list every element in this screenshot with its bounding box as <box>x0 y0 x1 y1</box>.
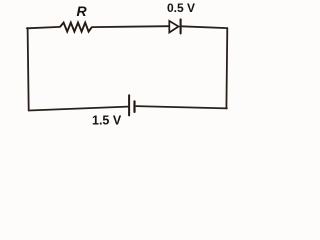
battery B1 long plate (positive) <box>128 95 130 115</box>
wire: top-right segment from diode to corner <box>182 26 228 28</box>
wire: top-left segment from corner to resistor <box>27 27 60 28</box>
resistor R (zigzag) <box>60 23 92 32</box>
diode D1 cathode bar <box>180 19 182 33</box>
svg-text:1.5 V: 1.5 V <box>92 114 122 128</box>
wire: bottom-left segment from battery to corner <box>29 107 128 111</box>
battery B1 short plate (negative) <box>133 101 135 112</box>
svg-text:R: R <box>76 3 87 19</box>
wire: right vertical side <box>225 28 228 108</box>
wire: top segment between resistor and diode <box>92 25 169 28</box>
diode D1 triangle (anode) <box>169 21 178 33</box>
wire: bottom-right segment from corner to battery <box>136 106 227 108</box>
wire: left vertical side <box>28 28 29 110</box>
svg-text:0.5 V: 0.5 V <box>167 1 195 15</box>
